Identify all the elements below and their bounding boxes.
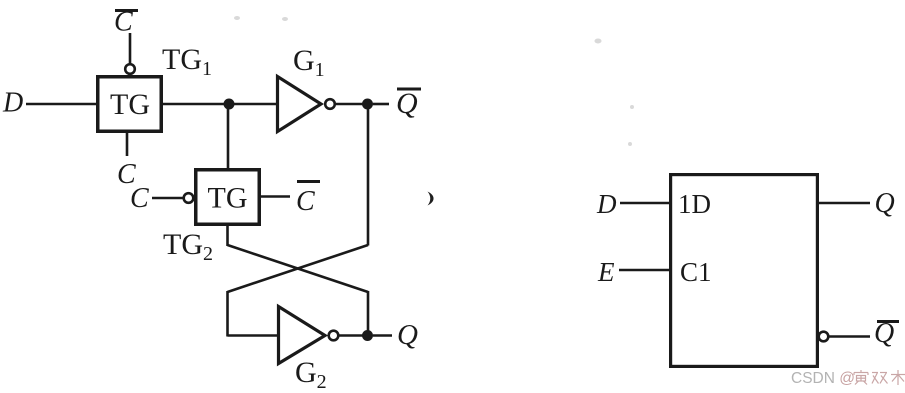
svg-text:C1: C1 <box>680 257 712 287</box>
wire D to block <box>620 202 670 205</box>
junction node A <box>224 99 235 110</box>
wire crossover diagonal from Qbar side to G2 side <box>228 245 369 292</box>
svg-text:Q: Q <box>397 319 418 351</box>
svg-text:E: E <box>597 257 615 287</box>
node Qbar label <box>396 87 421 120</box>
wire G1 bubble to node Qbar <box>336 103 368 106</box>
svg-text:TG1: TG1 <box>162 43 212 80</box>
glyph shuang <box>872 373 888 384</box>
wire G2 bubble to node Q <box>339 334 368 337</box>
svg-text:G2: G2 <box>295 356 327 393</box>
glyph mu <box>891 370 905 385</box>
wire left vertical down to G2 input <box>226 291 229 337</box>
junction node Q <box>362 330 373 341</box>
watermark handle glyphs <box>854 370 905 385</box>
svg-text:TG2: TG2 <box>163 228 213 265</box>
wire crossover diagonal from TG2 to Q side <box>228 245 369 292</box>
svg-text:TG: TG <box>110 88 150 121</box>
inverter G1 <box>278 77 322 132</box>
node Qbar label (block) <box>874 318 899 349</box>
wire TG2 bottom down <box>226 224 229 246</box>
wire node Qbar down to crossover <box>367 104 370 246</box>
wire TG1 output to node A <box>161 103 229 106</box>
wire node Qbar to label <box>373 103 389 106</box>
svg-text:C: C <box>130 183 149 214</box>
wire E to block <box>619 269 670 272</box>
scan artifact parenthesis <box>428 192 434 206</box>
G1 output bubble <box>325 99 335 109</box>
G2 output bubble <box>329 331 339 341</box>
wire D to TG1 <box>26 103 97 106</box>
svg-text:Q: Q <box>874 318 894 349</box>
inverter G2 <box>279 307 326 364</box>
svg-text:CSDN @: CSDN @ <box>791 370 855 387</box>
svg-text:C: C <box>296 186 315 217</box>
scan smudges <box>234 16 634 146</box>
wire TG1 bottom to C label <box>126 133 129 156</box>
svg-text:Q: Q <box>875 188 895 219</box>
Qbar output bubble (block) <box>819 332 829 342</box>
svg-text:1D: 1D <box>678 189 711 219</box>
svg-text:C: C <box>114 7 133 38</box>
junction node Qbar <box>362 99 373 110</box>
node C-bar label right of TG2 <box>296 182 320 218</box>
svg-text:Q: Q <box>396 87 418 120</box>
wire block to Qbar <box>829 335 870 338</box>
wire block to Q <box>819 202 870 205</box>
wire node A to G1 input <box>229 103 277 106</box>
wire horizontal to G2 input <box>228 334 279 337</box>
wire node Q to label <box>373 334 392 337</box>
node C-bar top label <box>114 7 138 38</box>
transmission gate TG2 <box>196 170 260 225</box>
glyph yin <box>854 370 868 385</box>
wire TG2 output to C-bar label <box>261 195 290 198</box>
svg-text:TG: TG <box>208 182 248 215</box>
wire right vertical down to node Q <box>367 291 370 336</box>
D latch block U1 <box>671 175 818 367</box>
wire C to TG2 bubble <box>152 197 183 200</box>
svg-text:G1: G1 <box>293 44 325 81</box>
svg-text:D: D <box>596 189 617 219</box>
svg-text:D: D <box>2 88 23 119</box>
TG1 control bubble <box>125 64 135 74</box>
wire from C-bar to TG1 bubble <box>129 33 132 63</box>
TG2 input bubble <box>184 193 194 203</box>
transmission gate TG1 <box>98 77 162 132</box>
wire node A down to TG2 top <box>227 104 230 170</box>
